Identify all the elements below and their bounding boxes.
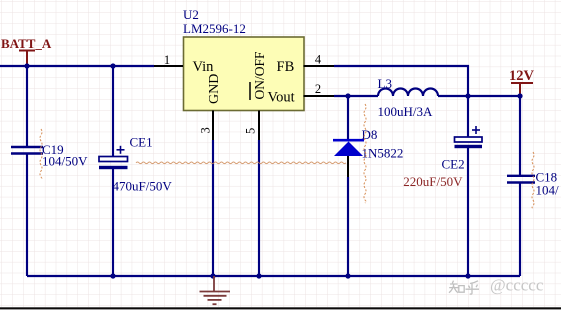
svg-text:1: 1 bbox=[164, 53, 170, 67]
svg-text:2: 2 bbox=[315, 82, 321, 96]
svg-text:1N5822: 1N5822 bbox=[362, 146, 404, 161]
wire: pin 5 to ground bus bbox=[258, 140, 260, 276]
svg-text:D8: D8 bbox=[362, 127, 378, 142]
capacitor CE2 (polarized) bbox=[403, 126, 482, 189]
svg-text:Vout: Vout bbox=[268, 90, 295, 106]
pin 4 (FB) of U2 bbox=[304, 53, 335, 67]
svg-text:5: 5 bbox=[244, 128, 258, 134]
node: ground bus junction pin 5 bbox=[256, 273, 261, 278]
svg-text:470uF/50V: 470uF/50V bbox=[113, 179, 173, 194]
wire: CE2 branch lower segment to ground bus bbox=[467, 148, 469, 276]
wire: input net from left edge to U2 pin 1 bbox=[0, 65, 154, 67]
error marker squiggle from CE1 to D8 bbox=[136, 162, 346, 164]
wire: C19 branch lower segment to ground bus bbox=[26, 155, 28, 277]
svg-text:BATT_A: BATT_A bbox=[1, 36, 52, 51]
svg-text:L3: L3 bbox=[378, 76, 392, 91]
node: junction of CE1 on input net bbox=[110, 63, 115, 68]
error marker squiggle near C19 text bbox=[40, 129, 42, 179]
svg-text:CE2: CE2 bbox=[442, 157, 465, 172]
bottom border line bbox=[0, 307, 561, 309]
wire: C18 branch lower segment to ground bus bbox=[519, 184, 521, 277]
wire: diode branch upper segment bbox=[347, 96, 349, 139]
power port BATT_A bbox=[1, 36, 52, 66]
ground symbol bbox=[200, 276, 231, 304]
wire: CE2 branch upper segment bbox=[467, 96, 469, 137]
error marker squiggle near D8 bbox=[364, 104, 366, 203]
svg-text:104/: 104/ bbox=[536, 183, 560, 198]
svg-text:FB: FB bbox=[277, 59, 295, 75]
wire: FB net from pin 4 to output node bbox=[334, 66, 468, 96]
svg-text:100uH/3A: 100uH/3A bbox=[378, 104, 434, 119]
node: ground bus junction CE1 bbox=[110, 273, 115, 278]
node: switch node junction (diode tap) bbox=[345, 93, 350, 98]
power port 12V bbox=[509, 68, 535, 96]
node: ground bus junction diode bbox=[345, 273, 350, 278]
wire: diode branch lower segment to ground bus bbox=[347, 156, 349, 276]
svg-text:3: 3 bbox=[199, 127, 213, 133]
svg-text:ON/OFF: ON/OFF bbox=[252, 51, 267, 100]
op-amp U2 body (LM2596-12 regulator) bbox=[183, 7, 304, 111]
diode D8 (1N5822 schottky) bbox=[333, 127, 403, 161]
pin 1 (Vin) of U2 bbox=[154, 53, 183, 67]
svg-text:U2: U2 bbox=[183, 7, 199, 22]
wire: pin 3 to ground bus bbox=[212, 140, 214, 276]
svg-text:12V: 12V bbox=[509, 68, 535, 84]
node: ground bus junction pin 3 bbox=[210, 273, 215, 278]
capacitor CE1 (polarized) bbox=[99, 135, 172, 194]
error marker squiggle near C18 bbox=[532, 152, 534, 208]
capacitor C19 bbox=[11, 142, 88, 169]
wire: switch net from pin 2 to inductor bbox=[334, 95, 378, 97]
svg-text:GND: GND bbox=[207, 74, 222, 104]
watermark 知乎 @ccccc bbox=[449, 281, 479, 295]
wire: C19 branch upper segment bbox=[26, 66, 28, 146]
inductor L3 bbox=[378, 76, 439, 119]
svg-text:@ccccc: @ccccc bbox=[490, 276, 544, 295]
svg-text:Vin: Vin bbox=[193, 59, 215, 75]
node: junction of BATT_A / C19 on input net bbox=[24, 63, 29, 68]
svg-text:CE1: CE1 bbox=[130, 135, 153, 150]
wire: CE1 branch upper segment bbox=[112, 66, 114, 157]
node: output junction with 12V and C18 bbox=[517, 93, 522, 98]
wire: ground bus bbox=[27, 275, 520, 277]
wire: CE1 branch lower segment to ground bus bbox=[112, 169, 114, 276]
node: ground bus junction CE2 bbox=[465, 273, 470, 278]
capacitor C18 bbox=[507, 170, 559, 198]
svg-text:LM2596-12: LM2596-12 bbox=[183, 21, 246, 36]
pin 3 (GND) of U2 bbox=[199, 111, 214, 141]
svg-text:220uF/50V: 220uF/50V bbox=[403, 174, 463, 189]
pin 2 (Vout) of U2 bbox=[304, 82, 335, 96]
pin 5 (ON/OFF) of U2 bbox=[244, 111, 260, 141]
node: output junction with FB and CE2 bbox=[465, 93, 470, 98]
wire: output net from inductor to right bbox=[438, 95, 520, 97]
wire: C18 branch upper segment bbox=[519, 96, 521, 175]
svg-text:104/50V: 104/50V bbox=[42, 154, 88, 169]
svg-text:4: 4 bbox=[315, 53, 322, 67]
